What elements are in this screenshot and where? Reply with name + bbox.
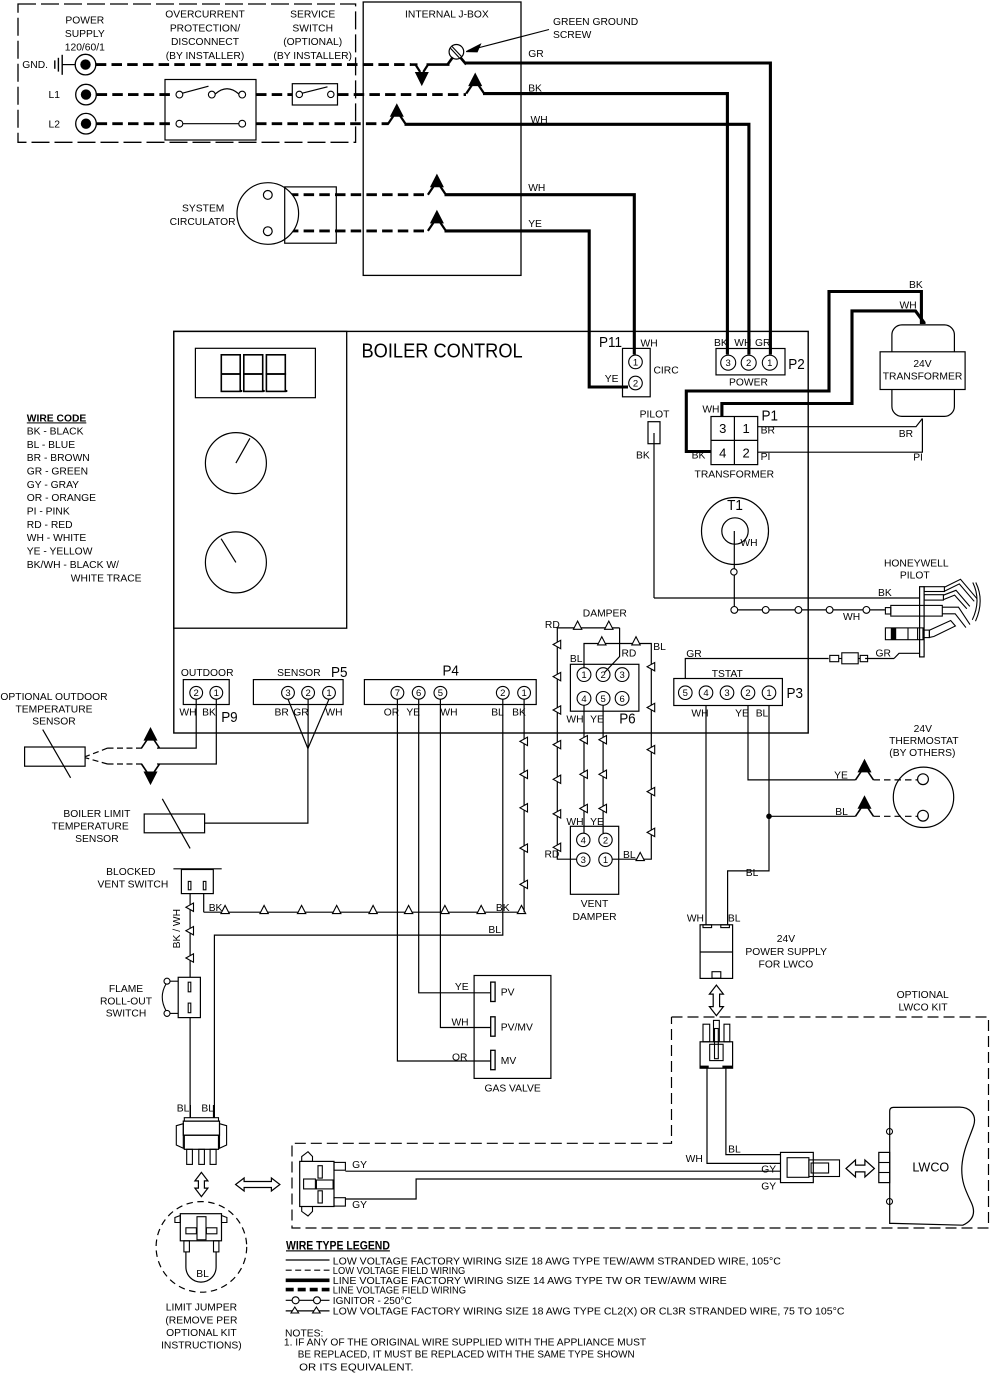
svg-text:RD: RD: [545, 850, 560, 861]
svg-text:3: 3: [619, 670, 624, 681]
svg-text:GR: GR: [876, 649, 891, 660]
svg-text:YE - YELLOW: YE - YELLOW: [27, 547, 93, 558]
svg-text:24V: 24V: [777, 934, 795, 945]
svg-text:SENSOR: SENSOR: [32, 717, 76, 728]
svg-text:(REMOVE PER: (REMOVE PER: [165, 1316, 237, 1327]
svg-text:PV: PV: [501, 988, 515, 999]
svg-text:PROTECTION/: PROTECTION/: [170, 23, 241, 34]
svg-text:YE: YE: [528, 219, 542, 230]
svg-text:YE: YE: [735, 709, 749, 720]
svg-text:2: 2: [746, 358, 751, 369]
svg-text:GR: GR: [528, 49, 543, 60]
svg-text:BK/WH - BLACK W/: BK/WH - BLACK W/: [27, 560, 119, 571]
svg-text:LOW VOLTAGE FACTORY WIRING SIZ: LOW VOLTAGE FACTORY WIRING SIZE 18 AWG T…: [333, 1307, 845, 1318]
svg-text:BL: BL: [491, 707, 504, 718]
svg-text:BR - BROWN: BR - BROWN: [27, 453, 90, 464]
svg-text:2: 2: [742, 446, 749, 461]
svg-text:GY: GY: [761, 1181, 776, 1192]
svg-text:1: 1: [767, 358, 772, 369]
svg-text:4: 4: [581, 835, 586, 846]
svg-text:BLOCKED: BLOCKED: [106, 867, 155, 878]
svg-text:BK: BK: [209, 903, 223, 914]
svg-text:3: 3: [719, 421, 726, 436]
svg-text:PV/MV: PV/MV: [501, 1022, 533, 1033]
svg-text:GR: GR: [755, 338, 770, 349]
svg-text:BL: BL: [746, 868, 759, 879]
svg-text:P2: P2: [788, 356, 805, 373]
svg-text:OR - ORANGE: OR - ORANGE: [27, 493, 96, 504]
svg-text:YE: YE: [455, 982, 469, 993]
svg-text:BR: BR: [899, 429, 913, 440]
svg-text:WIRE TYPE LEGEND: WIRE TYPE LEGEND: [286, 1240, 390, 1252]
svg-text:L2: L2: [49, 119, 61, 130]
svg-text:DISCONNECT: DISCONNECT: [171, 37, 240, 48]
svg-text:PI: PI: [913, 453, 923, 464]
svg-text:SUPPLY: SUPPLY: [65, 29, 105, 40]
svg-text:WH - WHITE: WH - WHITE: [27, 533, 87, 544]
svg-text:MV: MV: [501, 1056, 517, 1067]
svg-text:LINE VOLTAGE FIELD WIRING: LINE VOLTAGE FIELD WIRING: [333, 1285, 466, 1296]
svg-text:WH: WH: [687, 913, 704, 924]
svg-text:BK / WH: BK / WH: [172, 909, 183, 948]
svg-text:CIRC: CIRC: [654, 366, 680, 377]
svg-text:5: 5: [683, 688, 688, 699]
svg-text:(OPTIONAL): (OPTIONAL): [283, 37, 342, 48]
svg-text:(BY INSTALLER): (BY INSTALLER): [166, 51, 245, 62]
svg-text:BL: BL: [201, 1104, 214, 1115]
svg-text:3: 3: [726, 358, 731, 369]
svg-text:P11: P11: [599, 334, 622, 351]
svg-text:OR: OR: [452, 1052, 467, 1063]
svg-text:FLAME: FLAME: [109, 984, 143, 995]
svg-text:ROLL-OUT: ROLL-OUT: [100, 997, 153, 1008]
svg-text:WH: WH: [734, 338, 751, 349]
svg-text:YE: YE: [605, 374, 619, 385]
svg-text:(BY OTHERS): (BY OTHERS): [889, 748, 955, 759]
svg-text:OPTIONAL KIT: OPTIONAL KIT: [166, 1328, 237, 1339]
svg-text:LWCO: LWCO: [912, 1160, 949, 1174]
svg-text:T1: T1: [727, 497, 743, 514]
svg-text:WH: WH: [179, 707, 196, 718]
svg-text:WH: WH: [740, 538, 757, 549]
svg-text:LIMIT JUMPER: LIMIT JUMPER: [166, 1303, 237, 1314]
svg-text:INTERNAL J-BOX: INTERNAL J-BOX: [405, 9, 489, 20]
svg-text:BL: BL: [570, 654, 583, 665]
svg-text:BK: BK: [909, 280, 923, 291]
svg-text:1: 1: [581, 670, 586, 681]
svg-text:WH: WH: [641, 339, 658, 350]
svg-text:FOR LWCO: FOR LWCO: [759, 959, 814, 970]
svg-text:DAMPER: DAMPER: [583, 609, 627, 620]
svg-text:P3: P3: [787, 685, 804, 702]
svg-text:2: 2: [633, 378, 638, 389]
svg-text:RD: RD: [622, 649, 637, 660]
svg-text:(BY INSTALLER): (BY INSTALLER): [273, 51, 352, 62]
svg-text:VENT: VENT: [581, 899, 609, 910]
svg-text:GY: GY: [352, 1200, 367, 1211]
svg-text:BK: BK: [636, 451, 650, 462]
svg-text:SWITCH: SWITCH: [106, 1009, 147, 1020]
svg-text:BK: BK: [878, 588, 892, 599]
svg-text:4: 4: [703, 688, 708, 699]
svg-text:5: 5: [438, 688, 443, 699]
svg-text:WHITE TRACE: WHITE TRACE: [71, 573, 142, 584]
svg-text:LWCO KIT: LWCO KIT: [898, 1003, 948, 1014]
svg-text:YE: YE: [590, 715, 604, 726]
svg-text:WH: WH: [325, 707, 342, 718]
svg-text:DAMPER: DAMPER: [572, 912, 616, 923]
svg-text:TEMPERATURE: TEMPERATURE: [15, 704, 92, 715]
svg-text:OPTIONAL: OPTIONAL: [897, 990, 949, 1001]
svg-text:INSTRUCTIONS): INSTRUCTIONS): [161, 1341, 242, 1352]
svg-text:BOILER CONTROL: BOILER CONTROL: [362, 341, 523, 363]
svg-text:VENT SWITCH: VENT SWITCH: [98, 880, 169, 891]
svg-text:SYSTEM: SYSTEM: [182, 204, 224, 215]
svg-text:BL: BL: [177, 1104, 190, 1115]
svg-text:GY: GY: [352, 1160, 367, 1171]
svg-text:2: 2: [500, 688, 505, 699]
svg-text:PI - PINK: PI - PINK: [27, 507, 70, 518]
svg-text:WH: WH: [451, 1017, 468, 1028]
svg-text:TEMPERATURE: TEMPERATURE: [52, 822, 129, 833]
svg-text:GND.: GND.: [22, 60, 48, 71]
svg-text:OVERCURRENT: OVERCURRENT: [165, 10, 245, 21]
svg-text:24V: 24V: [913, 359, 931, 370]
svg-text:SCREW: SCREW: [553, 30, 592, 41]
svg-text:1: 1: [603, 855, 608, 866]
svg-text:GY: GY: [761, 1165, 776, 1176]
svg-text:CIRCULATOR: CIRCULATOR: [170, 217, 236, 228]
svg-text:1: 1: [633, 357, 638, 368]
svg-text:BOILER LIMIT: BOILER LIMIT: [63, 809, 131, 820]
svg-text:3: 3: [724, 688, 729, 699]
svg-text:WH: WH: [566, 715, 583, 726]
svg-text:P4: P4: [442, 663, 459, 680]
svg-text:L1: L1: [49, 90, 61, 101]
svg-text:2: 2: [745, 688, 750, 699]
svg-text:BK: BK: [692, 451, 706, 462]
svg-text:3: 3: [581, 855, 586, 866]
svg-text:WH: WH: [528, 183, 545, 194]
svg-text:P6: P6: [619, 711, 636, 728]
svg-text:GY - GRAY: GY - GRAY: [27, 480, 79, 491]
svg-text:WH: WH: [686, 1154, 703, 1165]
svg-text:BL: BL: [623, 850, 636, 861]
svg-text:PI: PI: [761, 452, 771, 463]
svg-text:GR - GREEN: GR - GREEN: [27, 466, 88, 477]
svg-text:BK: BK: [528, 84, 542, 95]
svg-text:BL: BL: [756, 709, 769, 720]
svg-text:BK: BK: [202, 707, 216, 718]
svg-text:BL: BL: [728, 1145, 741, 1156]
svg-text:POWER: POWER: [65, 15, 104, 26]
svg-text:THERMOSTAT: THERMOSTAT: [889, 736, 959, 747]
svg-text:P1: P1: [762, 407, 779, 424]
svg-text:3: 3: [285, 688, 290, 699]
svg-text:PILOT: PILOT: [900, 570, 930, 581]
svg-text:HONEYWELL: HONEYWELL: [884, 559, 949, 570]
svg-text:WIRE CODE: WIRE CODE: [27, 413, 87, 424]
svg-text:WH: WH: [900, 301, 917, 312]
svg-text:7: 7: [395, 688, 400, 699]
svg-text:4: 4: [719, 446, 726, 461]
svg-text:WH: WH: [843, 612, 860, 623]
svg-text:P9: P9: [221, 709, 238, 726]
svg-text:2: 2: [305, 688, 310, 699]
svg-text:WH: WH: [531, 115, 548, 126]
svg-text:PILOT: PILOT: [640, 410, 670, 421]
svg-text:POWER SUPPLY: POWER SUPPLY: [745, 947, 827, 958]
svg-text:1: 1: [214, 688, 219, 699]
svg-text:1: 1: [742, 421, 749, 436]
svg-text:2: 2: [603, 835, 608, 846]
svg-text:SENSOR: SENSOR: [75, 834, 119, 845]
svg-text:WH: WH: [702, 405, 719, 416]
svg-text:1: 1: [766, 688, 771, 699]
svg-text:GREEN GROUND: GREEN GROUND: [553, 17, 638, 28]
svg-text:OPTIONAL OUTDOOR: OPTIONAL OUTDOOR: [0, 692, 107, 703]
svg-text:BK - BLACK: BK - BLACK: [27, 426, 84, 437]
svg-text:BK: BK: [714, 338, 728, 349]
svg-text:1: 1: [521, 688, 526, 699]
svg-text:TRANSFORMER: TRANSFORMER: [883, 372, 963, 383]
svg-text:P5: P5: [331, 664, 348, 681]
svg-text:BL: BL: [728, 914, 741, 925]
svg-text:5: 5: [600, 694, 605, 705]
svg-text:BL: BL: [196, 1269, 209, 1280]
svg-text:OR ITS EQUIVALENT.: OR ITS EQUIVALENT.: [299, 1363, 413, 1374]
svg-text:BL: BL: [653, 642, 666, 653]
svg-text:BE REPLACED, IT MUST BE REPLAC: BE REPLACED, IT MUST BE REPLACED WITH TH…: [298, 1350, 635, 1361]
svg-text:POWER: POWER: [729, 378, 768, 389]
svg-text:WH: WH: [440, 707, 457, 718]
svg-text:2: 2: [600, 670, 605, 681]
svg-text:120/60/1: 120/60/1: [65, 43, 105, 54]
svg-text:2: 2: [194, 688, 199, 699]
svg-text:6: 6: [619, 694, 624, 705]
svg-text:6: 6: [416, 688, 421, 699]
svg-text:RD - RED: RD - RED: [27, 520, 73, 531]
svg-text:24V: 24V: [914, 724, 932, 735]
svg-text:OUTDOOR: OUTDOOR: [181, 668, 234, 679]
svg-text:4: 4: [581, 694, 586, 705]
svg-text:SERVICE: SERVICE: [290, 10, 335, 21]
svg-text:GAS VALVE: GAS VALVE: [484, 1084, 540, 1095]
svg-text:IGNITOR - 250°C: IGNITOR - 250°C: [333, 1296, 413, 1307]
svg-text:TRANSFORMER: TRANSFORMER: [695, 470, 775, 481]
svg-text:SWITCH: SWITCH: [292, 23, 333, 34]
svg-text:SENSOR: SENSOR: [277, 668, 321, 679]
svg-text:BL - BLUE: BL - BLUE: [27, 440, 75, 451]
svg-text:BR: BR: [275, 707, 289, 718]
svg-text:BL: BL: [488, 925, 501, 936]
svg-text:1. IF ANY OF THE ORIGINAL WIRE: 1. IF ANY OF THE ORIGINAL WIRE SUPPLIED …: [284, 1338, 647, 1349]
svg-text:1: 1: [326, 688, 331, 699]
